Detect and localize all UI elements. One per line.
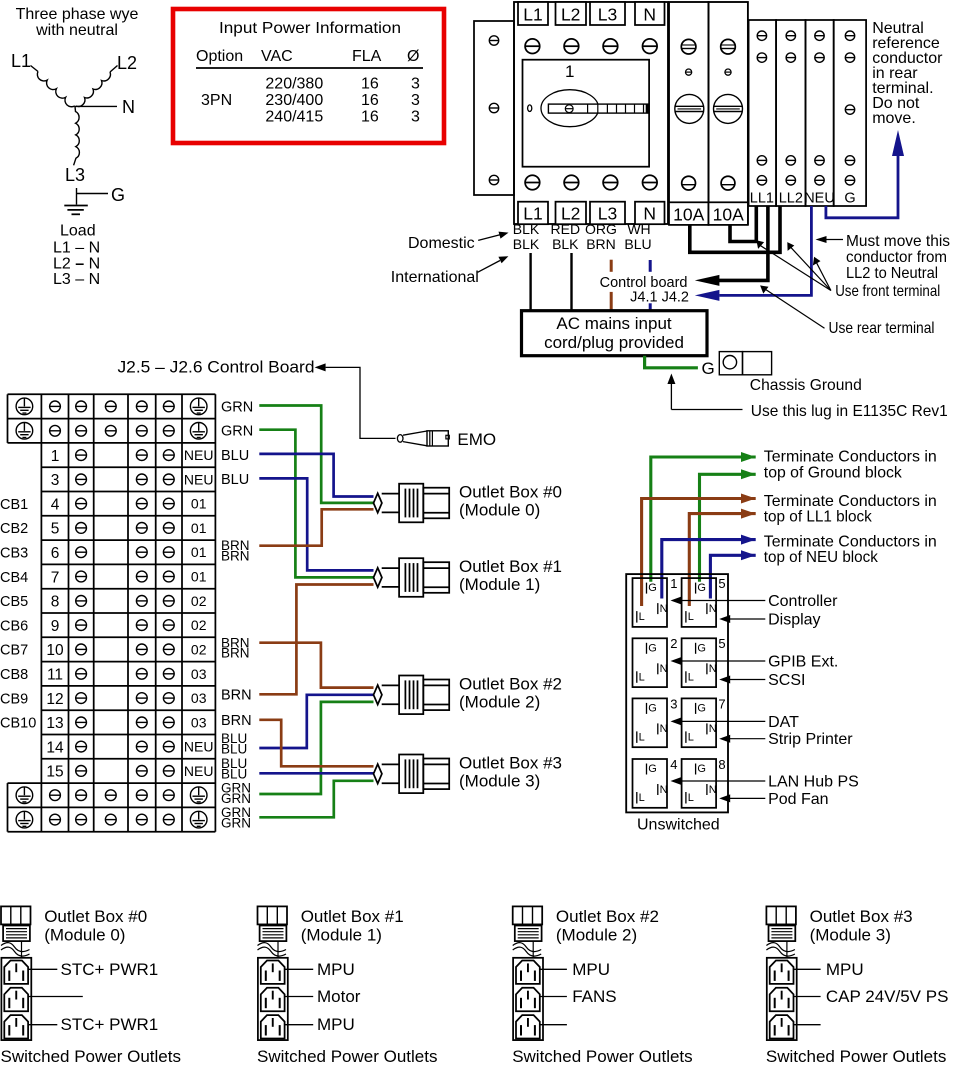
wire label BRN row12 <box>221 688 252 704</box>
strip printer arrow <box>719 735 765 743</box>
outlet box #0 plug <box>1 906 31 941</box>
outlet box #2 strip <box>513 958 543 1040</box>
terminal label L2 bottom <box>556 202 587 225</box>
unswitched socket 4 <box>633 759 668 808</box>
svg-text:5: 5 <box>51 521 60 538</box>
svg-text:LAN Hub PS: LAN Hub PS <box>768 774 859 791</box>
chassis G label <box>702 359 715 378</box>
switched power outlets label #1 <box>257 1047 437 1065</box>
svg-text:230/400: 230/400 <box>265 92 323 109</box>
svg-text:8: 8 <box>51 594 60 611</box>
svg-text:L1 – N: L1 – N <box>53 240 100 257</box>
svg-text:Strip Printer: Strip Printer <box>768 731 853 748</box>
wire label GRN row2 <box>221 424 253 440</box>
outlet box 3 label <box>459 753 562 790</box>
outlet #1.1 label MPU <box>285 960 355 979</box>
use front terminal note <box>756 240 940 300</box>
svg-text:Outlet Box #3: Outlet Box #3 <box>810 907 913 926</box>
svg-text:CB6: CB6 <box>0 618 28 634</box>
outlet #2.2 label FANS <box>540 987 617 1006</box>
svg-text:3: 3 <box>670 696 677 711</box>
wire green unswitched right <box>700 474 756 582</box>
wire green ground from mains <box>645 356 698 368</box>
socket 8 number <box>718 757 725 772</box>
terminate LL1 note <box>764 493 937 526</box>
terminate LL1 arrow 2 <box>741 509 756 519</box>
wire blue unswitched right <box>710 555 755 598</box>
ground row 17 symbols <box>16 787 207 804</box>
terminal row 4 <box>51 496 207 514</box>
display arrow <box>719 615 765 623</box>
svg-text:MPU: MPU <box>317 1015 355 1034</box>
wire brown row13 to outlet box 3 <box>259 720 373 767</box>
svg-text:03: 03 <box>191 690 207 706</box>
terminal label N bottom <box>635 202 665 225</box>
svg-text:Switched Power Outlets: Switched Power Outlets <box>512 1047 692 1065</box>
winding L2 coil <box>76 72 110 106</box>
svg-text:top of LL1 block: top of LL1 block <box>764 509 873 526</box>
controller arrow <box>671 597 766 605</box>
svg-text:EMO: EMO <box>457 430 496 449</box>
svg-text:CB3: CB3 <box>0 546 28 562</box>
svg-text:Pod Fan: Pod Fan <box>768 791 828 808</box>
wire neutral rear blue to note <box>826 130 904 218</box>
outlet box #1 plug <box>258 906 288 941</box>
svg-text:MPU: MPU <box>317 960 355 979</box>
wire ground stem <box>77 188 109 205</box>
svg-text:5: 5 <box>718 576 725 591</box>
svg-text:G: G <box>844 191 855 207</box>
svg-text:STC+ PWR1: STC+ PWR1 <box>61 960 159 979</box>
svg-text:Unswitched: Unswitched <box>637 817 720 834</box>
svg-text:Load: Load <box>60 223 96 240</box>
svg-text:G: G <box>702 359 715 378</box>
svg-text:STC+ PWR1: STC+ PWR1 <box>61 1015 159 1034</box>
svg-text:G: G <box>111 185 125 205</box>
wire L1 lead <box>31 66 39 72</box>
terminal row 10 <box>46 641 206 659</box>
svg-text:3: 3 <box>411 108 420 125</box>
input power information table <box>173 9 444 143</box>
socket 7 number <box>718 696 725 711</box>
wire label GRN GRN row17 <box>221 805 251 830</box>
gpib label <box>768 654 838 671</box>
unswitched socket 5b <box>682 638 717 687</box>
rotary handle bar <box>548 104 648 113</box>
svg-text:with neutral: with neutral <box>35 22 118 39</box>
outlet box #2 strain relief <box>513 941 542 958</box>
svg-text:Motor: Motor <box>317 987 361 1006</box>
wire label BLU row4 <box>221 472 249 488</box>
unswitched socket 1 <box>633 578 668 627</box>
svg-text:Display: Display <box>768 612 820 629</box>
outlet box #2 title <box>556 907 659 945</box>
svg-text:02: 02 <box>191 593 207 609</box>
terminal block table <box>8 394 216 831</box>
svg-text:Switched Power Outlets: Switched Power Outlets <box>257 1047 437 1065</box>
svg-text:3: 3 <box>411 92 420 109</box>
breaker 10A label 1 <box>669 202 709 225</box>
svg-text:GRN: GRN <box>221 400 253 416</box>
switch position 1 label <box>565 62 574 81</box>
outlet #0.2 lead <box>28 996 83 998</box>
svg-text:CB1: CB1 <box>0 497 28 513</box>
socket 3 number <box>670 696 677 711</box>
wire label BLU BLU row14 <box>221 731 247 756</box>
outlet #2.3 lead <box>540 1024 567 1026</box>
svg-text:DAT: DAT <box>768 714 799 731</box>
terminate ground arrow 1 <box>741 452 756 462</box>
wire green unswitched left <box>651 457 756 582</box>
svg-text:move.: move. <box>872 110 916 127</box>
svg-text:02: 02 <box>191 641 207 657</box>
terminate ground arrow 2 <box>741 469 756 479</box>
svg-text:7: 7 <box>51 569 60 586</box>
svg-text:GRN: GRN <box>221 791 251 806</box>
wire blue row3 to outlet box 0 <box>259 454 373 497</box>
winding L1 coil <box>37 72 74 107</box>
svg-text:Outlet Box #0: Outlet Box #0 <box>459 483 562 502</box>
switched power outlets label #0 <box>1 1047 181 1065</box>
node L1 label <box>11 51 31 71</box>
wire blue row14 to outlet box 2 <box>259 695 373 748</box>
wire 10A2 to LL1 front <box>730 206 756 242</box>
ground earth symbol <box>64 206 88 215</box>
rotary knob ellipse <box>541 90 599 127</box>
wire green row16 to outlet box 2 <box>259 702 373 794</box>
svg-text:Switched Power Outlets: Switched Power Outlets <box>766 1047 946 1065</box>
label ORG BRN under L3 <box>585 221 617 252</box>
scsi label <box>768 672 805 689</box>
svg-text:9: 9 <box>51 618 60 635</box>
terminal label N top <box>635 2 665 25</box>
svg-text:Terminate Conductors in: Terminate Conductors in <box>764 534 937 551</box>
svg-text:4: 4 <box>670 757 677 772</box>
svg-text:FLA: FLA <box>352 48 382 65</box>
wire L1 black to mains <box>529 253 531 311</box>
svg-text:conductor from: conductor from <box>846 249 947 266</box>
breaker label CB2 <box>0 521 28 537</box>
unswitched socket 2 <box>633 638 668 687</box>
pod fan arrow <box>719 794 765 802</box>
svg-text:16: 16 <box>361 92 379 109</box>
svg-text:01: 01 <box>191 569 207 585</box>
svg-text:L3: L3 <box>65 165 85 185</box>
svg-text:(Module 1): (Module 1) <box>459 575 540 594</box>
breaker label CB1 <box>0 497 28 513</box>
svg-text:J2.5 – J2.6 Control Board: J2.5 – J2.6 Control Board <box>118 358 315 377</box>
unswitched socket 5a <box>682 578 717 627</box>
control board label <box>600 275 689 306</box>
use this lug note <box>667 374 947 421</box>
unswitched label <box>637 817 720 834</box>
outlet #3.3 lead <box>794 1024 821 1026</box>
svg-text:CB9: CB9 <box>0 691 28 707</box>
circuit breaker CB 10A column 1 <box>669 2 709 224</box>
svg-text:CB5: CB5 <box>0 594 28 610</box>
svg-text:LL1: LL1 <box>750 191 774 207</box>
svg-text:1: 1 <box>51 448 60 465</box>
svg-text:BLU: BLU <box>221 472 249 488</box>
svg-text:Ø: Ø <box>407 48 419 65</box>
terminal row 9 <box>51 617 207 635</box>
svg-text:14: 14 <box>46 739 64 756</box>
outlet box #0 title <box>44 907 147 945</box>
svg-text:01: 01 <box>191 496 207 512</box>
outlet #0.3 label STC+ PWR1 <box>28 1015 158 1034</box>
display label <box>768 612 820 629</box>
outlet box 1 label <box>459 557 562 594</box>
side panel screw 2 <box>489 103 498 112</box>
side panel screw 1 <box>489 36 498 45</box>
terminate NEU arrow 1 <box>741 535 756 545</box>
wire label BLU row3 <box>221 448 249 464</box>
switched power outlets label #3 <box>766 1047 946 1065</box>
label RED BLK under L2 <box>551 221 581 252</box>
outlet box #3 title <box>810 907 913 945</box>
wire brown row6 to outlet box 0 <box>259 509 373 545</box>
outlet #1.3 label MPU <box>285 1015 355 1034</box>
svg-text:CB2: CB2 <box>0 521 28 537</box>
svg-text:220/380: 220/380 <box>265 75 323 92</box>
svg-text:CB4: CB4 <box>0 570 28 586</box>
gpib arrow <box>671 657 766 665</box>
svg-text:L3 – N: L3 – N <box>53 271 100 288</box>
wire L2 lead <box>110 66 118 73</box>
breaker label CB4 <box>0 570 28 586</box>
svg-text:Use this lug in E1135C Rev1: Use this lug in E1135C Rev1 <box>751 403 948 420</box>
J2.5 J2.6 control board label <box>118 358 396 439</box>
svg-text:VAC: VAC <box>261 48 293 65</box>
svg-text:L3: L3 <box>598 5 617 25</box>
wire brown row10 to outlet box 2 <box>259 643 373 688</box>
terminal row 11 <box>47 666 207 684</box>
svg-text:L1: L1 <box>11 51 31 71</box>
terminal row 3 <box>51 471 214 489</box>
outlet box 0 label <box>459 483 562 520</box>
terminate LL1 arrow 1 <box>741 494 756 504</box>
socket 5a number <box>718 576 725 591</box>
label WH BLU under N <box>624 221 651 252</box>
svg-text:LL2 to Neutral: LL2 to Neutral <box>846 265 938 282</box>
svg-text:240/415: 240/415 <box>265 108 323 125</box>
svg-text:BLK: BLK <box>552 236 579 252</box>
breaker label CB3 <box>0 546 28 562</box>
svg-text:03: 03 <box>191 666 207 682</box>
svg-text:8: 8 <box>718 757 725 772</box>
AC mains input box <box>522 311 708 356</box>
svg-text:LL2: LL2 <box>779 191 803 207</box>
svg-text:(Module 2): (Module 2) <box>556 925 637 944</box>
must move note <box>816 233 951 282</box>
svg-text:Input Power Information: Input Power Information <box>219 20 401 37</box>
svg-text:RED: RED <box>551 221 581 237</box>
breaker label CB8 <box>0 667 28 683</box>
svg-text:(Module 3): (Module 3) <box>810 925 891 944</box>
svg-text:cord/plug provided: cord/plug provided <box>544 333 684 352</box>
svg-text:Must move this: Must move this <box>846 233 950 250</box>
dat label <box>768 714 799 731</box>
socket 5b number <box>718 636 725 651</box>
svg-text:11: 11 <box>47 667 63 684</box>
svg-text:Outlet Box #0: Outlet Box #0 <box>44 907 147 926</box>
svg-text:top of NEU block: top of NEU block <box>764 549 879 566</box>
node L2 label <box>117 53 137 73</box>
svg-text:(Module 0): (Module 0) <box>459 501 540 520</box>
svg-text:Controller: Controller <box>768 593 838 610</box>
neutral reference note <box>872 20 943 127</box>
domestic label <box>408 232 509 252</box>
outlet box 2 label <box>459 674 562 711</box>
svg-text:N: N <box>643 5 656 25</box>
wire label BRN row13 <box>221 713 252 729</box>
wire label BRN BRN row6 <box>221 538 250 563</box>
terminal row 14 <box>46 739 213 757</box>
outlet #3.1 label MPU <box>794 960 864 979</box>
outlet box #3 strip <box>767 958 797 1040</box>
wire green row1 to outlet box 0 <box>259 406 373 503</box>
unswitched socket 3 <box>633 698 668 747</box>
unswitched socket 8 <box>682 759 717 808</box>
breaker label CB9 <box>0 691 28 707</box>
node N label <box>122 97 135 117</box>
svg-text:BLU: BLU <box>221 448 249 464</box>
svg-text:AC mains input: AC mains input <box>556 314 672 333</box>
svg-text:(Module 0): (Module 0) <box>44 925 125 944</box>
terminal row 15 <box>46 763 213 781</box>
chassis ground label <box>750 377 862 394</box>
svg-text:01: 01 <box>191 544 207 560</box>
svg-text:NEU: NEU <box>184 739 214 755</box>
terminal row 8 <box>51 593 207 611</box>
socket 2 number <box>670 636 677 651</box>
svg-text:CAP 24V/5V PS: CAP 24V/5V PS <box>826 987 949 1006</box>
svg-text:16: 16 <box>361 108 379 125</box>
svg-text:7: 7 <box>718 696 725 711</box>
terminate ground note <box>764 449 937 482</box>
svg-text:GRN: GRN <box>221 424 253 440</box>
svg-text:4: 4 <box>51 496 60 513</box>
connector outlet box 2 <box>374 676 450 715</box>
svg-text:(Module 2): (Module 2) <box>459 692 540 711</box>
terminal strip NEU <box>804 20 835 207</box>
wire label GRN row1 <box>221 400 253 416</box>
svg-text:CB7: CB7 <box>0 643 28 659</box>
svg-text:Switched Power Outlets: Switched Power Outlets <box>1 1047 181 1065</box>
winding L3 coil <box>74 106 80 165</box>
svg-text:L2 – N: L2 – N <box>53 256 100 273</box>
scsi arrow <box>719 676 765 684</box>
terminal label L1 top <box>518 2 548 25</box>
svg-text:Chassis Ground: Chassis Ground <box>750 377 862 394</box>
wire blue row4 to outlet box 1 <box>259 478 373 570</box>
terminal strip G <box>834 20 866 207</box>
outlet #1.2 label Motor <box>285 987 361 1006</box>
wire label GRN GRN row16 <box>221 780 251 805</box>
svg-text:16: 16 <box>361 75 379 92</box>
circuit breaker CB 10A column 2 <box>709 2 748 224</box>
svg-text:3PN: 3PN <box>201 92 232 109</box>
chassis ground lug <box>719 352 771 375</box>
outlet box #2 plug <box>513 906 543 941</box>
connector outlet box 3 <box>374 755 450 794</box>
wire brown unswitched right <box>689 514 755 606</box>
svg-text:BLK: BLK <box>513 236 540 252</box>
socket 1 number <box>670 576 677 591</box>
wire green row17 to outlet box 3 <box>259 781 373 818</box>
svg-text:N: N <box>122 97 135 117</box>
svg-text:(Module 1): (Module 1) <box>301 925 382 944</box>
ground row 1 symbols <box>16 398 207 415</box>
switch terminal screws top <box>525 39 657 54</box>
wire label BRN BRN row10 <box>221 635 250 660</box>
svg-text:BRN: BRN <box>221 688 252 704</box>
svg-text:2: 2 <box>670 636 677 651</box>
svg-text:Outlet Box #1: Outlet Box #1 <box>459 557 562 576</box>
main disconnect switch body <box>514 2 668 224</box>
svg-text:13: 13 <box>46 715 63 732</box>
svg-text:CB8: CB8 <box>0 667 28 683</box>
svg-text:NEU: NEU <box>184 763 214 779</box>
outlet #3.2 label CAP 24V/5V PS <box>794 987 949 1006</box>
terminal label L3 top <box>590 2 625 25</box>
svg-text:top of Ground block: top of Ground block <box>764 465 903 482</box>
terminal row 12 <box>46 690 206 708</box>
outlet box #0 strip <box>1 958 31 1040</box>
svg-text:BRN: BRN <box>221 548 250 563</box>
svg-text:L2: L2 <box>117 53 137 73</box>
ground row 2 symbols <box>16 423 207 440</box>
breaker label CB10 <box>0 716 36 732</box>
svg-text:SCSI: SCSI <box>768 672 805 689</box>
terminal row 5 <box>51 520 207 538</box>
switch indicator dot <box>528 105 532 112</box>
svg-text:MPU: MPU <box>572 960 610 979</box>
svg-text:BRN: BRN <box>221 713 252 729</box>
terminate NEU arrow 2 <box>741 550 756 560</box>
terminal row 7 <box>51 569 207 587</box>
load list text <box>53 223 100 289</box>
rotary switch box <box>523 60 650 167</box>
outlet box #1 strip <box>258 958 288 1040</box>
breaker label CB7 <box>0 643 28 659</box>
three phase wye title <box>16 6 139 39</box>
ground row 18 symbols <box>16 811 207 828</box>
disconnect switch side panel <box>474 21 514 195</box>
outlet box #1 strain relief <box>258 941 287 958</box>
svg-text:MPU: MPU <box>826 960 864 979</box>
connector outlet box 1 <box>374 558 450 597</box>
svg-text:BLU: BLU <box>221 741 247 756</box>
svg-text:02: 02 <box>191 617 207 633</box>
terminal row 6 <box>51 544 207 562</box>
svg-text:GRN: GRN <box>221 815 251 830</box>
svg-text:Use front terminal: Use front terminal <box>835 283 940 300</box>
terminal row 13 <box>46 714 206 732</box>
outlet #2.1 label MPU <box>540 960 610 979</box>
svg-text:6: 6 <box>51 545 60 562</box>
svg-text:Outlet Box #3: Outlet Box #3 <box>459 753 562 772</box>
switch terminal screws bottom <box>525 175 657 190</box>
pod fan label <box>768 791 828 808</box>
svg-text:Terminate Conductors in: Terminate Conductors in <box>764 493 937 510</box>
wire brown row12 to outlet box 1 <box>259 585 373 695</box>
svg-text:Domestic: Domestic <box>408 235 475 252</box>
svg-text:BRN: BRN <box>586 236 616 252</box>
svg-text:1: 1 <box>565 62 574 81</box>
wire green row2 to outlet box 1 <box>259 430 373 578</box>
node G label <box>111 185 125 205</box>
